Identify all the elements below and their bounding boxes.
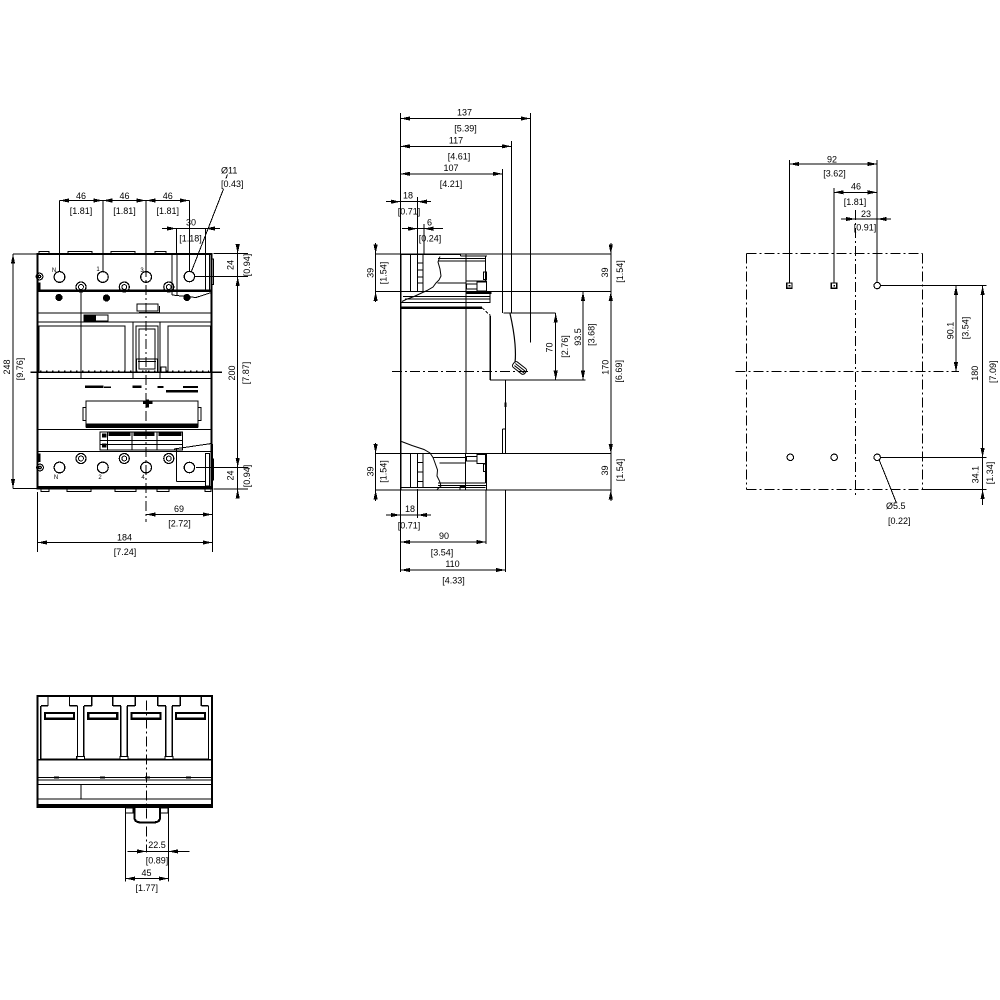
svg-text:[0.91]: [0.91] (854, 222, 877, 232)
svg-text:[7.24]: [7.24] (114, 547, 137, 557)
svg-text:[3.54]: [3.54] (961, 317, 971, 340)
svg-text:[2.76]: [2.76] (560, 335, 570, 358)
front view left edge details bottom (37, 454, 44, 471)
side view escutcheon thick bar (466, 292, 492, 294)
front view horizontal line y378 (38, 378, 212, 380)
front view pole labels N 2 4 (54, 475, 146, 481)
dim 200 [7.87] right (227, 277, 251, 468)
dim 18 [0.71] top (386, 191, 431, 254)
svg-text:[0.94]: [0.94] (242, 465, 252, 488)
svg-text:[3.68]: [3.68] (586, 323, 596, 346)
leader and label diameter 11 [0.43] (191, 166, 244, 273)
front view left window (39, 326, 125, 372)
svg-text:18: 18 (403, 191, 413, 201)
drilling plate horizontal centreline (736, 371, 959, 373)
svg-text:[0.22]: [0.22] (888, 516, 911, 526)
svg-text:23: 23 (861, 209, 871, 219)
front view horizontal line y372 (31, 371, 223, 373)
svg-text:184: 184 (117, 532, 132, 542)
front view test button (137, 304, 160, 313)
front view horizontal line y451 (38, 451, 212, 453)
side view toggle handle (511, 361, 527, 376)
svg-text:46: 46 (76, 191, 86, 201)
svg-text:180: 180 (970, 366, 980, 381)
front view top cover screws (ring heads) (76, 282, 174, 292)
bottom view DIN rail foot (126, 808, 168, 823)
front view toggle handle (137, 359, 167, 373)
side view top line (extension) (376, 253, 611, 255)
leader and label diameter 5.5 [0.22] drilling (879, 460, 911, 527)
front view horizontal line y429 (38, 429, 212, 431)
side view handle escutcheon curve (510, 314, 515, 363)
bottom view DIN rail black bar (37, 804, 212, 808)
side view layered lines (401, 297, 490, 308)
svg-text:[1.81]: [1.81] (157, 206, 180, 216)
svg-text:24: 24 (226, 260, 236, 270)
dim 23 [0.91] drilling (841, 209, 891, 232)
svg-text:N: N (52, 268, 56, 274)
svg-text:2: 2 (98, 475, 102, 481)
svg-text:46: 46 (119, 191, 129, 201)
svg-text:117: 117 (449, 135, 463, 145)
front view accessory label block (100, 432, 183, 450)
front view rating text row (85, 385, 198, 392)
front view centreline (145, 231, 147, 522)
bottom view pole cavities (41, 696, 209, 760)
svg-text:3: 3 (140, 268, 144, 274)
front view bottom cover screws (ring heads) (76, 454, 174, 464)
side view front face chamfer (482, 308, 490, 316)
bottom view outline (37, 696, 212, 807)
svg-text:[0.94]: [0.94] (242, 254, 252, 277)
dim 24 [0.94] bottom right (196, 458, 252, 499)
side view top terminal lug (402, 254, 487, 302)
side view front face (489, 315, 491, 380)
svg-text:[0.71]: [0.71] (398, 521, 421, 531)
svg-text:200: 200 (227, 365, 237, 380)
svg-text:92: 92 (827, 155, 837, 165)
side view handle ref line (504, 312, 556, 314)
dim 170 [6.69] (601, 292, 624, 454)
svg-text:[0.71]: [0.71] (398, 207, 421, 217)
side view inner vertical line (465, 254, 467, 454)
svg-text:[1.18]: [1.18] (179, 234, 202, 244)
front view bottom edge thick (38, 486, 212, 488)
side view lower front edge (502, 380, 506, 453)
svg-text:[4.21]: [4.21] (440, 179, 463, 189)
svg-text:[4.61]: [4.61] (448, 151, 471, 161)
svg-text:[1.54]: [1.54] (615, 260, 625, 283)
dim 110 [4.33] (401, 490, 506, 586)
svg-text:90: 90 (439, 531, 449, 541)
front view line under terminal zone (38, 290, 212, 292)
dim 92 [3.62] (789, 155, 877, 283)
front view horizontal line y322 (38, 321, 212, 323)
front view toggle frame (133, 322, 160, 379)
front view left edge hinge details top (36, 273, 43, 290)
dim 18 [0.71] bottom (386, 489, 431, 572)
svg-text:[1.81]: [1.81] (844, 197, 867, 207)
side view rear edge (400, 254, 402, 490)
drilling plate outline (747, 254, 923, 490)
side view line y291.5 extension (376, 291, 611, 293)
svg-text:[1.81]: [1.81] (113, 206, 136, 216)
svg-text:Ø5.5: Ø5.5 (886, 501, 906, 511)
svg-text:34.1: 34.1 (971, 466, 981, 484)
svg-text:39: 39 (600, 465, 610, 475)
dim 6 [0.24] (402, 218, 443, 254)
dim 117 [4.61] (401, 135, 512, 313)
side view front face upper (489, 293, 491, 304)
dim 248 [9.76] left (2, 254, 37, 489)
svg-text:24: 24 (226, 470, 236, 480)
svg-text:[1.54]: [1.54] (615, 459, 625, 482)
svg-text:[5.39]: [5.39] (454, 124, 477, 134)
svg-text:Ø11: Ø11 (221, 166, 237, 176)
drill holes bottom row (787, 454, 880, 460)
front view bottom terminal screws (54, 462, 151, 473)
dim 45 [1.77] bottom view (126, 868, 169, 893)
dim 70 [2.76] (544, 313, 570, 380)
front view right window (168, 326, 211, 372)
svg-text:[0.24]: [0.24] (419, 234, 442, 244)
front view body outline (38, 254, 212, 489)
front view right terminal block bottom (174, 444, 214, 487)
dim 90.1 [3.54] drilling (880, 286, 986, 372)
svg-text:6: 6 (427, 218, 432, 228)
dim 46 [1.81] x3 top (60, 191, 190, 271)
front view right terminal block top (172, 254, 214, 298)
svg-text:39: 39 (600, 267, 610, 277)
side view escutcheon bottom (490, 379, 586, 381)
svg-text:[7.87]: [7.87] (241, 362, 251, 385)
svg-text:[1.77]: [1.77] (136, 883, 159, 893)
front view trip unit dots (56, 294, 190, 301)
dim 107 [4.21] (401, 163, 503, 313)
svg-text:46: 46 (851, 181, 861, 191)
dim 180 [7.09] drilling (880, 286, 998, 458)
svg-text:[1.54]: [1.54] (379, 460, 389, 483)
svg-text:90.1: 90.1 (946, 322, 956, 340)
drilling plate vertical centreline (855, 210, 857, 498)
svg-text:30: 30 (186, 218, 196, 228)
front view small label (84, 315, 108, 321)
front view top terminal screws (54, 271, 195, 282)
dim 34.1 [1.34] drilling (923, 448, 995, 505)
side view bottom terminal lug (401, 442, 487, 491)
dim 137 [5.39] (401, 108, 531, 343)
svg-text:137: 137 (457, 108, 472, 118)
svg-text:[3.54]: [3.54] (431, 548, 454, 558)
svg-text:[9.76]: [9.76] (15, 358, 25, 381)
dim 93.5 [3.68] (573, 292, 596, 381)
side view horizontal line y453.6 (376, 453, 611, 455)
svg-text:46: 46 (163, 191, 173, 201)
side view bottom edge (376, 489, 611, 491)
svg-text:45: 45 (141, 868, 151, 878)
front view bottom mounting tabs (41, 489, 211, 492)
dim 46 [1.81] drilling (834, 181, 877, 283)
side view top edge (401, 253, 461, 255)
svg-text:[0.43]: [0.43] (221, 179, 244, 189)
svg-text:[2.72]: [2.72] (168, 519, 191, 529)
dim 39 [1.54] left bottom (365, 443, 388, 501)
svg-text:22.5: 22.5 (148, 840, 166, 850)
svg-text:170: 170 (601, 360, 611, 375)
svg-text:39: 39 (365, 466, 375, 476)
dim 39 [1.54] right top (600, 243, 625, 302)
svg-text:[0.89]: [0.89] (146, 855, 169, 865)
svg-text:39: 39 (365, 268, 375, 278)
svg-text:[6.69]: [6.69] (614, 360, 624, 383)
svg-text:93.5: 93.5 (573, 328, 583, 346)
svg-text:[7.09]: [7.09] (988, 360, 998, 383)
svg-text:70: 70 (544, 342, 554, 352)
bottom view centreline (146, 701, 148, 853)
svg-text:[3.62]: [3.62] (823, 169, 846, 179)
bottom view busbar windows (45, 713, 205, 719)
svg-text:248: 248 (2, 359, 12, 374)
svg-text:69: 69 (174, 504, 184, 514)
side view top terminal interior lines (411, 254, 424, 292)
dim 39 [1.54] right bottom (600, 443, 625, 501)
side view bottom terminal interior lines (411, 454, 424, 488)
front view rating plate (83, 399, 201, 428)
bottom view base lines (37, 760, 212, 799)
svg-text:110: 110 (445, 559, 459, 569)
dim 24 [0.94] top right (195, 244, 252, 286)
side view centreline (392, 371, 531, 373)
front view pole labels N 1 3 (52, 267, 145, 274)
front view window divider (80, 292, 82, 379)
svg-text:[1.34]: [1.34] (985, 462, 995, 485)
dim 69 [2.72] bottom (146, 444, 212, 552)
svg-text:4: 4 (141, 475, 145, 481)
svg-text:[1.81]: [1.81] (70, 206, 93, 216)
dim 30 [1.18] (162, 218, 220, 255)
svg-text:[4.33]: [4.33] (442, 576, 465, 586)
front view horizontal line y313 (38, 312, 212, 314)
drill holes top row (787, 282, 881, 288)
svg-text:18: 18 (405, 504, 415, 514)
svg-text:[1.54]: [1.54] (379, 262, 389, 285)
front view dotted strip (40, 370, 209, 372)
svg-text:N: N (54, 475, 58, 481)
svg-text:107: 107 (443, 163, 458, 173)
dim 184 [7.24] bottom (38, 492, 213, 557)
dim 39 [1.54] left top (365, 243, 388, 302)
front view top mounting tabs (39, 252, 166, 255)
dim 22.5 [0.89] bottom view (126, 808, 190, 882)
dim 90 [3.54] (401, 490, 487, 558)
